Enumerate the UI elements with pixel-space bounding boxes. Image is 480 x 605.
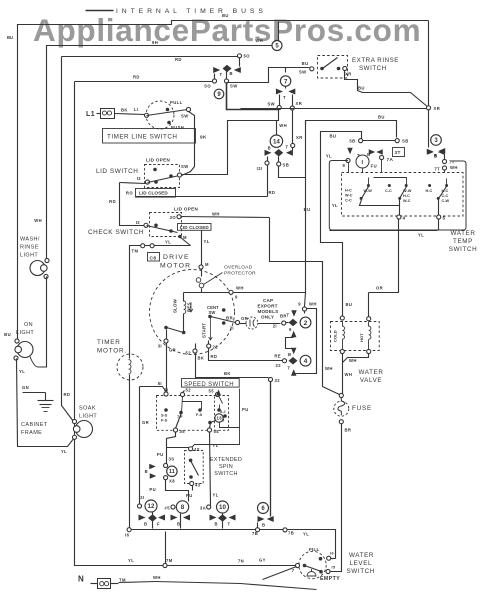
- svg-text:5B: 5B: [349, 139, 355, 144]
- svg-text:10: 10: [219, 504, 226, 511]
- svg-text:ONLY: ONLY: [261, 315, 274, 320]
- svg-text:LID OPEN: LID OPEN: [146, 158, 170, 163]
- svg-text:C-W: C-W: [442, 199, 450, 203]
- svg-text:S-S: S-S: [161, 414, 168, 418]
- svg-text:I6: I6: [125, 533, 130, 538]
- svg-text:35: 35: [180, 429, 186, 434]
- svg-text:WH: WH: [349, 358, 357, 363]
- svg-text:GN: GN: [22, 385, 29, 390]
- svg-text:2: 2: [304, 320, 308, 327]
- svg-text:5: 5: [443, 216, 446, 221]
- svg-text:X8: X8: [169, 479, 175, 484]
- svg-text:WH: WH: [325, 366, 333, 371]
- svg-text:9: 9: [289, 327, 292, 332]
- svg-text:32: 32: [275, 378, 281, 383]
- svg-text:B: B: [367, 152, 370, 157]
- svg-text:BU: BU: [346, 302, 353, 307]
- svg-text:GR: GR: [169, 348, 176, 353]
- svg-text:SWITCH: SWITCH: [359, 65, 387, 72]
- svg-text:SW: SW: [181, 164, 189, 169]
- svg-text:YL: YL: [61, 449, 67, 454]
- svg-text:FUSE: FUSE: [352, 405, 372, 412]
- svg-text:3T: 3T: [395, 150, 401, 155]
- svg-text:3S: 3S: [169, 457, 175, 462]
- svg-text:WATER: WATER: [349, 552, 374, 559]
- svg-text:EMPTY: EMPTY: [320, 576, 340, 582]
- svg-text:EXTRA RINSE: EXTRA RINSE: [352, 57, 399, 64]
- svg-text:3A: 3A: [200, 506, 206, 511]
- svg-text:TEMP: TEMP: [453, 238, 473, 245]
- svg-text:5-J: 5-J: [220, 410, 226, 414]
- svg-text:RINSE: RINSE: [20, 245, 39, 251]
- svg-text:SWITCH: SWITCH: [214, 471, 238, 477]
- svg-text:YL: YL: [19, 369, 25, 374]
- svg-text:B: B: [434, 153, 437, 158]
- svg-text:5I: 5I: [158, 381, 162, 386]
- svg-text:LID CLOSED: LID CLOSED: [139, 191, 168, 196]
- svg-text:7T: 7T: [449, 160, 455, 165]
- svg-text:SW: SW: [267, 102, 275, 107]
- svg-text:4: 4: [304, 358, 308, 365]
- svg-text:COLD: COLD: [333, 330, 338, 342]
- svg-text:5O: 5O: [244, 54, 251, 59]
- svg-text:3O: 3O: [170, 215, 177, 220]
- svg-text:B: B: [177, 522, 180, 527]
- svg-text:RD: RD: [175, 57, 182, 62]
- svg-text:7M: 7M: [166, 558, 173, 563]
- svg-text:PU: PU: [186, 493, 193, 498]
- svg-text:YL: YL: [204, 239, 210, 244]
- svg-text:LID SWITCH: LID SWITCH: [96, 168, 138, 175]
- svg-text:TM: TM: [119, 578, 126, 583]
- svg-text:C-C: C-C: [385, 189, 392, 193]
- svg-text:I: I: [362, 160, 364, 166]
- svg-text:H-C: H-C: [442, 189, 449, 193]
- svg-text:WH: WH: [236, 286, 244, 291]
- svg-text:SPEED SWITCH: SPEED SWITCH: [184, 382, 234, 388]
- svg-text:START: START: [202, 323, 207, 338]
- svg-text:W-C: W-C: [345, 194, 353, 198]
- svg-text:YL: YL: [418, 233, 424, 238]
- svg-text:LI: LI: [134, 107, 139, 112]
- svg-text:4S: 4S: [194, 447, 200, 452]
- svg-text:9H: 9H: [152, 40, 158, 45]
- svg-text:52: 52: [186, 388, 192, 393]
- svg-text:MOTOR.: MOTOR.: [97, 348, 127, 355]
- svg-text:B: B: [215, 522, 218, 527]
- svg-text:SB: SB: [283, 163, 290, 168]
- svg-text:WATER: WATER: [358, 369, 383, 376]
- svg-text:YL: YL: [332, 203, 338, 208]
- svg-text:DRIVE: DRIVE: [163, 254, 190, 261]
- svg-text:BU: BU: [222, 13, 229, 18]
- svg-text:BU: BU: [330, 134, 337, 139]
- svg-text:RD: RD: [133, 75, 140, 80]
- svg-text:I5: I5: [332, 566, 336, 570]
- svg-text:GY: GY: [259, 558, 266, 563]
- svg-text:WH: WH: [255, 38, 263, 43]
- svg-text:WH: WH: [153, 575, 161, 580]
- svg-text:T: T: [220, 72, 223, 77]
- svg-text:CHECK SWITCH: CHECK SWITCH: [88, 229, 144, 236]
- svg-text:SOAK: SOAK: [79, 406, 96, 412]
- svg-text:LID CLOSED: LID CLOSED: [180, 225, 209, 230]
- svg-text:SO: SO: [204, 84, 211, 89]
- svg-text:2I: 2I: [273, 324, 277, 329]
- svg-text:LEVEL: LEVEL: [350, 560, 373, 567]
- svg-text:8: 8: [181, 504, 185, 511]
- svg-text:C-C: C-C: [442, 194, 449, 198]
- svg-text:52: 52: [186, 351, 192, 356]
- svg-text:RD: RD: [269, 190, 276, 195]
- svg-text:13: 13: [216, 416, 222, 422]
- svg-text:#5: #5: [165, 506, 171, 511]
- svg-text:F-S: F-S: [196, 413, 203, 417]
- svg-text:BR: BR: [345, 428, 352, 433]
- svg-text:FILL: FILL: [309, 547, 320, 552]
- svg-text:FRAME: FRAME: [21, 430, 42, 436]
- svg-text:12: 12: [148, 503, 155, 510]
- svg-text:9: 9: [298, 302, 301, 307]
- svg-text:CAP: CAP: [263, 298, 273, 303]
- svg-text:LIGHT: LIGHT: [79, 414, 97, 420]
- svg-text:54: 54: [214, 429, 220, 434]
- svg-text:T: T: [283, 95, 286, 100]
- svg-text:7B: 7B: [252, 531, 258, 536]
- svg-text:SWITCH: SWITCH: [347, 568, 375, 575]
- svg-text:TIMER: TIMER: [97, 339, 121, 346]
- svg-text:H-C: H-C: [403, 194, 410, 198]
- svg-text:7: 7: [284, 78, 288, 85]
- svg-text:B: B: [262, 523, 265, 528]
- svg-text:T: T: [287, 313, 290, 318]
- svg-text:T: T: [288, 366, 291, 371]
- svg-text:LIGHT: LIGHT: [16, 330, 34, 336]
- svg-text:WH: WH: [309, 302, 317, 307]
- svg-text:M: M: [205, 262, 209, 267]
- svg-text:F-S: F-S: [161, 419, 168, 423]
- svg-text:VALVE: VALVE: [360, 377, 382, 384]
- svg-text:L1: L1: [86, 111, 95, 118]
- svg-text:MODELS: MODELS: [258, 309, 279, 314]
- svg-text:11: 11: [169, 469, 175, 475]
- svg-text:BU: BU: [304, 207, 311, 212]
- svg-text:OR: OR: [376, 286, 383, 291]
- svg-text:H-C: H-C: [426, 189, 433, 193]
- svg-text:B: B: [144, 522, 147, 527]
- svg-text:SB: SB: [402, 139, 409, 144]
- svg-text:3I: 3I: [158, 344, 162, 349]
- svg-text:2I: 2I: [140, 495, 144, 500]
- svg-text:7N: 7N: [238, 559, 244, 564]
- svg-text:14: 14: [273, 138, 280, 145]
- svg-text:MOTOR: MOTOR: [160, 263, 191, 270]
- svg-text:YL: YL: [303, 532, 309, 537]
- svg-text:EXPORT: EXPORT: [258, 304, 278, 309]
- svg-text:SW: SW: [181, 114, 189, 119]
- svg-text:4: 4: [403, 216, 406, 221]
- svg-text:BK: BK: [198, 356, 205, 361]
- svg-text:W-W: W-W: [403, 189, 412, 193]
- svg-text:BU: BU: [378, 115, 385, 120]
- svg-text:2I: 2I: [230, 326, 234, 331]
- svg-text:BU: BU: [7, 35, 13, 40]
- svg-text:XR: XR: [296, 135, 303, 140]
- svg-text:BK: BK: [121, 108, 128, 113]
- svg-text:7A: 7A: [387, 157, 394, 162]
- svg-text:T: T: [228, 522, 231, 527]
- svg-text:RE: RE: [274, 354, 281, 359]
- svg-text:XR: XR: [296, 101, 303, 106]
- svg-text:TIMER LINE SWITCH: TIMER LINE SWITCH: [107, 134, 177, 141]
- svg-text:PROTECTOR: PROTECTOR: [224, 271, 256, 277]
- svg-text:W-C: W-C: [403, 199, 411, 203]
- svg-text:B: B: [145, 469, 148, 474]
- svg-text:22: 22: [276, 363, 282, 368]
- svg-text:9K: 9K: [200, 135, 207, 140]
- svg-text:BU: BU: [4, 332, 11, 337]
- svg-text:N: N: [78, 575, 84, 584]
- svg-text:B: B: [288, 352, 291, 357]
- svg-text:LIGHT: LIGHT: [20, 253, 38, 259]
- svg-text:SWITCH: SWITCH: [449, 246, 477, 253]
- svg-text:YL: YL: [165, 240, 171, 245]
- svg-text:RD: RD: [211, 354, 218, 359]
- svg-text:WH: WH: [279, 123, 287, 128]
- svg-text:SW: SW: [299, 70, 307, 75]
- svg-text:RO: RO: [126, 191, 133, 196]
- svg-text:43: 43: [195, 483, 201, 488]
- svg-text:BU: BU: [302, 61, 309, 66]
- svg-text:I2I: I2I: [257, 166, 263, 171]
- svg-text:WATER: WATER: [450, 230, 475, 237]
- svg-text:GR: GR: [142, 420, 149, 425]
- svg-text:SLOW: SLOW: [173, 298, 178, 313]
- svg-text:7: 7: [292, 568, 295, 573]
- svg-text:B: B: [268, 146, 271, 151]
- svg-text:H-C: H-C: [345, 189, 352, 193]
- svg-text:LID OPEN: LID OPEN: [174, 207, 198, 212]
- svg-text:PULL: PULL: [170, 100, 183, 105]
- svg-text:9: 9: [235, 295, 238, 300]
- svg-text:BR: BR: [226, 316, 233, 321]
- svg-text:PU: PU: [157, 452, 164, 457]
- svg-text:WH: WH: [212, 212, 220, 217]
- svg-text:C8: C8: [150, 255, 157, 261]
- svg-text:22: 22: [213, 345, 219, 350]
- svg-text:EXTENDED: EXTENDED: [210, 457, 242, 463]
- svg-text:F: F: [157, 522, 160, 527]
- svg-text:T: T: [286, 145, 289, 150]
- svg-text:55: 55: [209, 389, 215, 394]
- svg-text:HOT: HOT: [359, 333, 364, 342]
- svg-text:I2: I2: [137, 176, 142, 181]
- svg-text:TM: TM: [132, 249, 139, 254]
- svg-text:OR: OR: [241, 316, 248, 321]
- svg-text:WASH/: WASH/: [20, 237, 40, 243]
- svg-text:RD: RD: [109, 199, 116, 204]
- svg-text:ON: ON: [24, 322, 33, 328]
- svg-text:RD: RD: [64, 392, 71, 397]
- svg-text:I2: I2: [136, 220, 141, 225]
- svg-text:C-C: C-C: [345, 199, 352, 203]
- svg-text:FU: FU: [371, 164, 377, 169]
- svg-text:SW: SW: [209, 310, 216, 315]
- svg-text:W-W: W-W: [364, 189, 373, 193]
- svg-text:XR: XR: [434, 106, 441, 111]
- svg-text:PU: PU: [242, 407, 249, 412]
- svg-text:BU: BU: [358, 86, 365, 91]
- svg-text:SW: SW: [230, 84, 238, 89]
- svg-text:B: B: [230, 71, 233, 76]
- svg-text:WH: WH: [450, 165, 458, 170]
- svg-text:7T: 7T: [434, 167, 440, 172]
- svg-text:PUSH: PUSH: [171, 125, 184, 130]
- svg-text:XR: XR: [345, 72, 352, 77]
- svg-text:9: 9: [343, 163, 346, 168]
- svg-text:M: M: [183, 235, 187, 240]
- svg-text:WH: WH: [345, 372, 353, 377]
- svg-text:YL: YL: [326, 154, 332, 159]
- svg-text:I6: I6: [330, 552, 334, 556]
- svg-text:SPIN: SPIN: [219, 464, 233, 470]
- svg-text:YL: YL: [128, 558, 134, 563]
- svg-text:BK: BK: [224, 371, 231, 376]
- svg-text:YL: YL: [213, 493, 219, 498]
- svg-text:YL: YL: [213, 443, 219, 448]
- svg-text:WH: WH: [34, 218, 42, 223]
- svg-text:PU: PU: [149, 487, 156, 492]
- svg-text:CABINET: CABINET: [21, 422, 48, 428]
- svg-text:OVERLOAD: OVERLOAD: [224, 265, 253, 271]
- svg-text:7B: 7B: [288, 531, 294, 536]
